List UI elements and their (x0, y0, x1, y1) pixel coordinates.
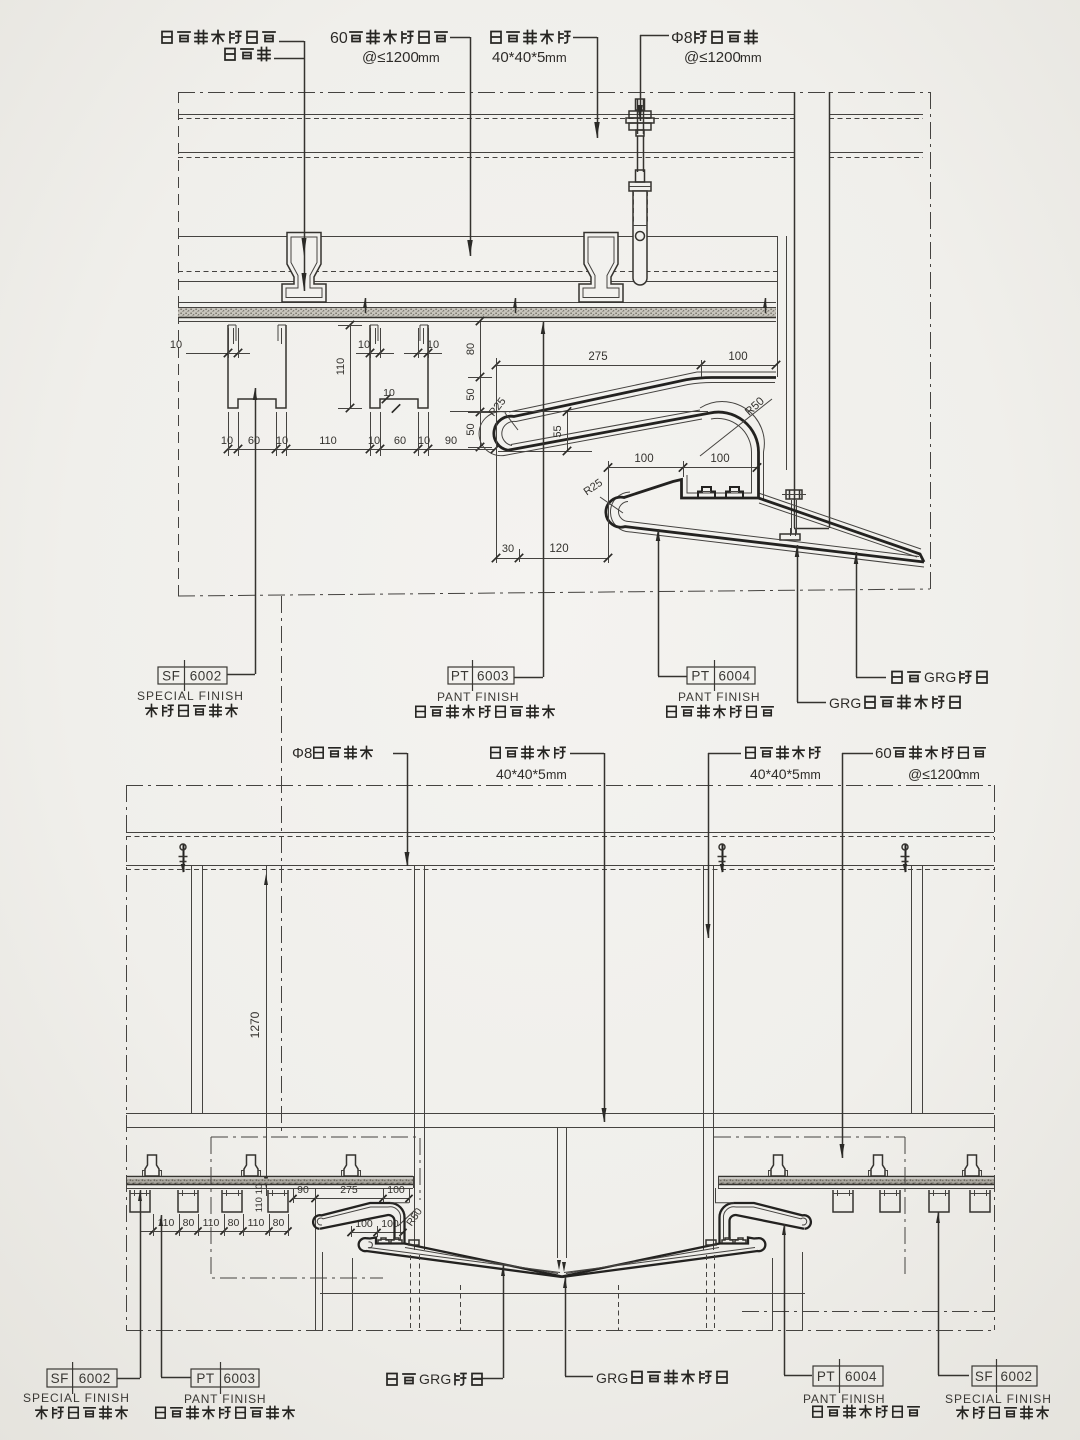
svg-text:110 10: 110 10 (254, 1184, 265, 1212)
svg-text:Φ8: Φ8 (292, 745, 312, 762)
svg-text:GRG: GRG (924, 669, 957, 685)
svg-text:mm: mm (418, 50, 440, 65)
svg-text:40*40*5: 40*40*5 (492, 49, 545, 66)
svg-text:110: 110 (248, 1217, 265, 1229)
svg-text:mm: mm (740, 50, 762, 65)
svg-text:10: 10 (170, 339, 182, 351)
svg-text:@≤1200: @≤1200 (362, 49, 419, 66)
svg-text:120: 120 (549, 543, 568, 555)
svg-text:1270: 1270 (248, 1011, 262, 1038)
svg-text:275: 275 (588, 351, 607, 363)
svg-text:60: 60 (875, 745, 892, 762)
svg-text:80: 80 (273, 1217, 285, 1229)
svg-text:PANT FINISH: PANT FINISH (437, 690, 519, 704)
svg-text:60: 60 (330, 30, 348, 47)
svg-text:10: 10 (383, 387, 395, 399)
svg-text:90: 90 (297, 1184, 309, 1196)
svg-text:Φ8: Φ8 (671, 30, 693, 47)
svg-text:80: 80 (183, 1217, 195, 1229)
svg-text:6004: 6004 (718, 669, 750, 684)
svg-text:GRG: GRG (596, 1370, 629, 1386)
svg-text:6002: 6002 (1000, 1369, 1032, 1384)
svg-text:SF: SF (975, 1369, 993, 1384)
svg-text:PANT FINISH: PANT FINISH (184, 1392, 266, 1406)
svg-text:PT: PT (817, 1369, 835, 1384)
svg-text:110: 110 (335, 358, 347, 376)
svg-text:SF: SF (51, 1371, 69, 1386)
svg-text:80: 80 (228, 1217, 240, 1229)
svg-text:110: 110 (319, 435, 337, 447)
svg-text:6002: 6002 (190, 669, 222, 684)
svg-text:PT: PT (451, 669, 469, 684)
svg-text:40*40*5: 40*40*5 (750, 766, 800, 782)
svg-text:80: 80 (465, 343, 477, 355)
svg-text:60: 60 (248, 435, 260, 447)
svg-text:mm: mm (546, 768, 567, 782)
svg-text:mm: mm (800, 768, 821, 782)
svg-text:6003: 6003 (223, 1371, 255, 1386)
svg-text:10: 10 (276, 435, 288, 447)
svg-text:SF: SF (162, 669, 180, 684)
svg-text:6002: 6002 (79, 1371, 111, 1386)
svg-text:GRG: GRG (829, 695, 862, 711)
svg-text:GRG: GRG (419, 1371, 452, 1387)
svg-text:6003: 6003 (477, 669, 509, 684)
svg-text:10: 10 (221, 435, 233, 447)
svg-text:@≤1200: @≤1200 (684, 49, 741, 66)
svg-text:@≤1200: @≤1200 (908, 766, 961, 782)
svg-text:50: 50 (465, 423, 477, 435)
svg-text:SPECIAL FINISH: SPECIAL FINISH (137, 689, 244, 703)
svg-text:275: 275 (340, 1184, 358, 1196)
svg-text:PANT FINISH: PANT FINISH (678, 690, 760, 704)
svg-text:100: 100 (728, 351, 747, 363)
svg-text:PT: PT (691, 669, 709, 684)
svg-text:60: 60 (394, 435, 406, 447)
svg-text:SPECIAL FINISH: SPECIAL FINISH (945, 1392, 1052, 1406)
svg-text:10: 10 (418, 435, 430, 447)
svg-text:30: 30 (502, 543, 514, 555)
svg-text:mm: mm (959, 768, 980, 782)
svg-text:SPECIAL FINISH: SPECIAL FINISH (23, 1391, 130, 1405)
svg-text:90: 90 (445, 435, 457, 447)
svg-text:10: 10 (358, 339, 370, 351)
svg-text:PANT FINISH: PANT FINISH (803, 1392, 885, 1406)
svg-text:100: 100 (381, 1218, 399, 1230)
svg-text:10: 10 (368, 435, 380, 447)
svg-text:6004: 6004 (845, 1369, 877, 1384)
svg-text:100: 100 (634, 453, 653, 465)
svg-text:PT: PT (196, 1371, 214, 1386)
svg-text:100: 100 (710, 453, 729, 465)
svg-text:mm: mm (545, 50, 567, 65)
svg-text:100: 100 (387, 1184, 405, 1196)
svg-text:50: 50 (465, 388, 477, 400)
svg-text:55: 55 (552, 425, 564, 437)
svg-text:40*40*5: 40*40*5 (496, 766, 546, 782)
